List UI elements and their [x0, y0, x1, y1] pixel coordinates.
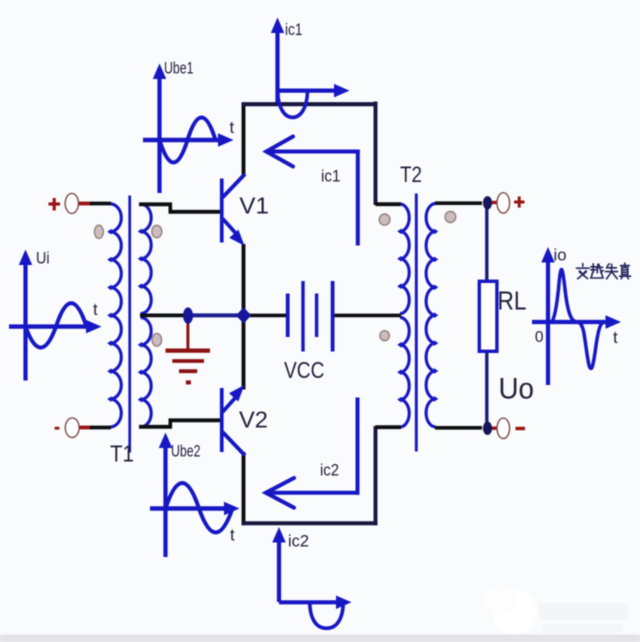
svg-text:io: io: [554, 247, 567, 265]
svg-text:V2: V2: [239, 407, 268, 433]
svg-text:Ui: Ui: [36, 249, 50, 268]
svg-text:ic2: ic2: [288, 533, 309, 551]
svg-text:t: t: [93, 300, 98, 319]
svg-text:t: t: [613, 328, 618, 347]
svg-text:ic2: ic2: [320, 462, 339, 480]
svg-text:VCC: VCC: [284, 357, 325, 383]
svg-text:V1: V1: [239, 193, 269, 219]
svg-text:RL: RL: [498, 286, 527, 316]
svg-text:T1: T1: [110, 441, 134, 467]
svg-text:Ube2: Ube2: [171, 442, 201, 461]
svg-text:Uo: Uo: [499, 373, 535, 406]
svg-text:0: 0: [535, 329, 544, 346]
svg-text:t: t: [230, 526, 235, 545]
svg-text:Ube1: Ube1: [164, 59, 194, 78]
svg-text:ic1: ic1: [321, 168, 341, 186]
svg-text:ic1: ic1: [285, 21, 303, 39]
svg-text:t: t: [230, 118, 235, 137]
svg-text:T2: T2: [400, 162, 422, 187]
